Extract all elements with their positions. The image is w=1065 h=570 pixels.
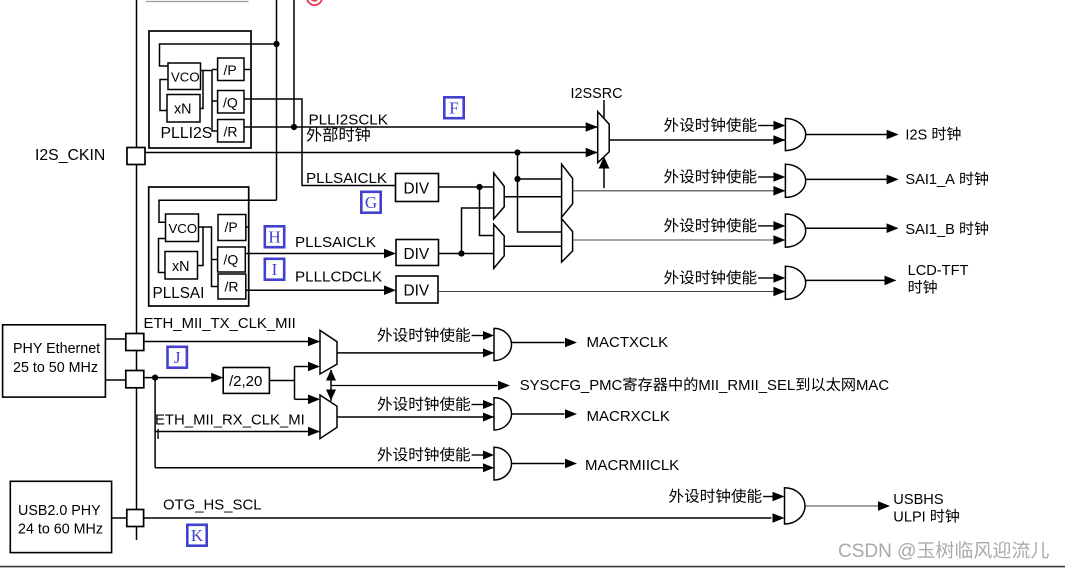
divider /R (PLLI2S) xyxy=(218,120,244,143)
pin USB pad xyxy=(127,510,144,527)
divider /Q (PLLI2S) xyxy=(218,91,244,114)
label 24 to 60 MHz xyxy=(18,522,103,538)
block PLLSAI outer box xyxy=(149,187,249,306)
block PHY Ethernet box xyxy=(3,325,106,397)
badge H xyxy=(265,226,284,247)
wire trunk below ETH pins xyxy=(136,388,138,510)
junction external clock branch xyxy=(514,149,520,155)
marker red circled annotation (cut off at top) xyxy=(307,0,322,5)
wire select link between mux E and F xyxy=(330,370,332,401)
svg-text:25 to 50 MHz: 25 to 50 MHz xyxy=(13,360,98,376)
wire vertical bus segment x=276.5 xyxy=(276,0,278,200)
wire bracket to mux F upper input xyxy=(295,398,309,400)
wire external clock row (from I2S_CKIN pin to I2S mux) xyxy=(145,152,598,154)
wire I2SSRC select from bottom xyxy=(603,168,605,188)
svg-text:J: J xyxy=(174,348,181,367)
arrow signal into SAI1_A gate xyxy=(773,186,785,196)
wire PLLSAI feedback (bus to VCO input) xyxy=(159,200,277,222)
svg-text:xN: xN xyxy=(172,259,189,275)
badge I xyxy=(265,259,284,280)
arrow signal into MACTXCLK gate xyxy=(483,348,494,357)
wire USB box to pin xyxy=(112,517,127,519)
pin I2S_CKIN pad xyxy=(127,148,145,165)
svg-text:PLLI2S: PLLI2S xyxy=(161,125,213,142)
svg-text:USB2.0 PHY: USB2.0 PHY xyxy=(18,503,101,519)
divider /2,20 xyxy=(223,368,269,394)
label I (wrapped) xyxy=(156,427,160,443)
and-gate MACTXCLK enable xyxy=(494,328,512,360)
wire trunk below USB pin xyxy=(136,527,138,541)
wire I2S mux output to AND gate xyxy=(609,139,785,141)
label /2,20 xyxy=(229,373,262,390)
svg-text:PLLSAICLK: PLLSAICLK xyxy=(295,234,376,251)
label DIV (row I) xyxy=(404,283,430,300)
label I2S_CKIN xyxy=(35,147,105,164)
label /Q (PLLI2S) xyxy=(223,95,238,111)
badge J xyxy=(168,347,187,368)
svg-text:PLLLCDCLK: PLLLCDCLK xyxy=(295,269,382,286)
border bottom page rule xyxy=(0,566,1065,568)
svg-text:/P: /P xyxy=(225,219,238,235)
and-gate MACRXCLK enable xyxy=(494,398,512,430)
svg-text:24 to 60 MHz: 24 to 60 MHz xyxy=(18,522,103,538)
label PLLSAICLK (row H) xyxy=(295,234,376,251)
wire VCO-xN left bracket (PLLSAI) xyxy=(159,239,166,273)
svg-text:CSDN @: CSDN @ xyxy=(838,541,916,562)
label+arrow peripheral clock enable (LCD-TFT gate) xyxy=(664,270,785,284)
arrow to I2S clock label xyxy=(887,130,899,140)
svg-text:F: F xyxy=(449,99,458,118)
svg-text:USBHS: USBHS xyxy=(893,492,944,508)
label ETH_MII_TX_CLK_MII xyxy=(144,316,296,332)
label ULPI 时钟 xyxy=(893,509,959,526)
badge K xyxy=(187,525,206,546)
wire mux F output to MACRXCLK gate xyxy=(337,416,494,418)
wire /P output stub (PLLI2S) xyxy=(244,69,251,71)
block PLLI2S outer box xyxy=(149,31,251,148)
label MACTXCLK xyxy=(587,334,669,351)
wire PLLI2S feedback (from bus to VCO input) xyxy=(160,44,277,66)
label MACRXCLK xyxy=(587,408,670,425)
label DIV (row H) xyxy=(404,246,430,263)
arrow to SAI1_A clock label xyxy=(887,175,899,185)
multiplier xN (PLLI2S) xyxy=(167,95,200,123)
wire I2SSRC select from top xyxy=(603,100,605,118)
svg-text:VCO: VCO xyxy=(169,221,198,236)
label SAI1_B 时钟 xyxy=(905,221,988,238)
wire mux A output to mux C xyxy=(504,196,561,198)
wire ETH_MII_RX_CLK to mux F xyxy=(155,431,320,433)
wire xN feedback bracket (PLLI2S) xyxy=(200,71,203,109)
and-gate LCD-TFT clock enable xyxy=(785,266,805,299)
wire DIV(I) output to LCD-TFT gate xyxy=(438,291,785,293)
svg-text:I2S_CKIN: I2S_CKIN xyxy=(35,147,105,164)
svg-text:MAC: MAC xyxy=(856,378,889,394)
wire gate output to SAI1_B clock xyxy=(806,227,887,229)
junction external clock to mux C xyxy=(514,176,520,182)
arrow select up into mux E xyxy=(326,370,336,381)
svg-text:LCD-TFT: LCD-TFT xyxy=(908,263,969,279)
wire VCO output to divider column (PLLI2S) xyxy=(201,71,218,132)
label LCD-TFT xyxy=(908,263,969,279)
arrow to MACTXCLK label xyxy=(565,338,577,348)
badge F xyxy=(444,97,463,118)
arrow select down into mux F xyxy=(326,390,336,401)
label /R (PLLI2S) xyxy=(224,124,238,140)
wire mux D output to SAI1_B gate xyxy=(573,239,786,241)
junction PLLI2SCLK tap xyxy=(291,124,297,130)
wire PLLI2S /Q output to DIV (row G) xyxy=(244,99,396,186)
divider /P (PLLI2S) xyxy=(218,58,244,81)
svg-text:/Q: /Q xyxy=(224,252,239,268)
arrow OTG clock into gate xyxy=(773,513,785,523)
wire RX pin to /2,20 divider xyxy=(144,377,211,379)
label watermark CSDN xyxy=(838,541,1049,562)
divider /P (PLLSAI) xyxy=(218,215,246,241)
arrow to MACRMIICLK label xyxy=(565,459,577,469)
svg-text:MACRMIICLK: MACRMIICLK xyxy=(585,457,679,474)
label I2S 时钟 xyxy=(905,127,960,144)
wire DIV(H) output to mux B xyxy=(439,253,494,255)
arrow TX clock into mux E xyxy=(308,337,320,347)
badge G xyxy=(361,192,380,213)
label DIV (row G) xyxy=(404,181,430,198)
wire VCO output to divider column (PLLSAI) xyxy=(199,227,219,287)
svg-text:xN: xN xyxy=(174,102,191,118)
svg-text:/R: /R xyxy=(225,279,239,295)
svg-text:MACTXCLK: MACTXCLK xyxy=(587,334,669,351)
wire gate output MACRMIICLK xyxy=(512,463,565,465)
svg-text:ETH_MII_RX_CLK_MI: ETH_MII_RX_CLK_MI xyxy=(155,413,305,429)
label ETH_MII_RX_CLK_MI xyxy=(155,413,305,429)
wire column stub to /Q (PLLI2S) xyxy=(212,100,218,102)
wire trunk between ETH pins xyxy=(136,351,138,371)
arrow into /2,20 divider xyxy=(211,373,223,383)
label PLLSAICLK (row G) xyxy=(306,170,387,187)
wire main clock trunk (vertical bus from top) xyxy=(136,0,138,148)
wire column stub to /P (PLLI2S) xyxy=(212,69,218,71)
svg-text:I: I xyxy=(272,260,278,279)
arrow to LCD-TFT clock label xyxy=(885,276,897,286)
wire OTG_HS_SCL to gate xyxy=(144,517,772,519)
divider DIV (row I) xyxy=(396,276,438,303)
svg-text:/P: /P xyxy=(224,62,237,78)
label xN (PLLSAI) xyxy=(172,259,189,275)
junction ETH RX branch xyxy=(152,375,158,381)
arrow into DIV (row I) xyxy=(384,285,396,295)
junction PLLI2S feedback tap xyxy=(273,41,279,47)
svg-text:I2SSRC: I2SSRC xyxy=(571,86,623,102)
label PLLI2S xyxy=(161,125,213,142)
arrow signal into LCD-TFT gate xyxy=(773,287,785,297)
wire vertical bus segment x=294 xyxy=(293,0,295,127)
label VCO (PLLSAI) xyxy=(169,221,198,236)
mux A (SAI1_A source pre-select) xyxy=(494,173,505,219)
svg-text:SAI1_B: SAI1_B xyxy=(905,222,955,238)
svg-text:/R: /R xyxy=(224,124,238,140)
pin ETH TX pad xyxy=(126,334,144,351)
pin ETH RX pad xyxy=(126,371,144,388)
wire xN feedback bracket (PLLSAI) xyxy=(198,227,204,266)
svg-text:PLLSAICLK: PLLSAICLK xyxy=(306,170,387,187)
arrow signal into MACRXCLK gate xyxy=(483,413,494,422)
svg-text:DIV: DIV xyxy=(404,283,430,300)
wire bracket to mux E lower input xyxy=(295,366,309,368)
svg-text:SAI1_A: SAI1_A xyxy=(905,172,955,188)
wire gate output MACTXCLK xyxy=(512,342,565,344)
mux F (MACRXCLK select) xyxy=(320,395,337,439)
divider /Q (PLLSAI) xyxy=(218,247,246,272)
arrow to USBHS label xyxy=(878,501,890,511)
label 外部时钟 (external clock) xyxy=(307,127,370,142)
svg-text:ETH_MII_TX_CLK_MII: ETH_MII_TX_CLK_MII xyxy=(144,316,296,332)
svg-text:I2S: I2S xyxy=(905,127,927,143)
arrow divided clock into mux E xyxy=(308,362,320,372)
label+arrow peripheral clock enable (MACTXCLK gate) xyxy=(378,328,494,342)
svg-text:K: K xyxy=(191,526,204,545)
svg-text:SYSCFG_PMC: SYSCFG_PMC xyxy=(520,378,623,394)
gray line (bottom of cut-off box at top) xyxy=(146,1,249,3)
label+arrow peripheral clock enable (SAI1_B gate) xyxy=(664,218,785,232)
label xN (PLLI2S) xyxy=(174,102,191,118)
wire RMII clock row to gate xyxy=(155,467,494,469)
wire divider bracket vertical xyxy=(294,367,296,400)
wire row H branch up to mux A xyxy=(462,208,494,254)
label /P (PLLI2S) xyxy=(224,62,237,78)
wire /P output stub (PLLSAI) xyxy=(246,226,249,228)
wire ETH_MII_TX_CLK to mux E xyxy=(144,341,320,343)
arrow I2S mux output into gate xyxy=(773,135,785,145)
vco VCO (PLLI2S) xyxy=(168,63,201,90)
wire ETH RX branch vertical xyxy=(154,378,156,468)
svg-text:I: I xyxy=(156,427,160,443)
label+arrow peripheral clock enable (MACRXCLK gate) xyxy=(378,397,494,411)
mux I2SSRC (I2S clock select) xyxy=(598,112,610,163)
wire mux B output to mux D xyxy=(504,245,561,247)
wire /2,20 output bracket xyxy=(269,380,294,382)
label USB2.0 PHY xyxy=(18,503,101,519)
arrow signal into MACRMIICLK gate xyxy=(483,463,494,472)
label 时钟 (LCD-TFT) xyxy=(909,280,937,294)
svg-text:G: G xyxy=(365,193,377,212)
label VCO (PLLI2S) xyxy=(171,70,200,85)
mux D (SAI1_B clock select) xyxy=(562,219,573,262)
wire PLLI2SCLK (PLLI2S /R to I2S mux) xyxy=(244,126,598,128)
arrow PLLI2SCLK into I2S mux xyxy=(586,122,598,132)
wire gate output to SAI1_A clock xyxy=(806,178,887,180)
and-gate MACRMIICLK enable xyxy=(494,447,512,480)
wire DIV(G) output to mux A xyxy=(439,186,494,188)
svg-text:ULPI: ULPI xyxy=(893,510,925,526)
divider DIV (row G) xyxy=(396,174,439,202)
label /R (PLLSAI) xyxy=(225,279,239,295)
svg-text:DIV: DIV xyxy=(404,246,430,263)
and-gate I2S clock enable xyxy=(785,119,805,151)
wire gate output to LCD-TFT clock xyxy=(806,279,885,281)
svg-text:PLLI2SCLK: PLLI2SCLK xyxy=(309,112,388,129)
mux B (SAI1_B source pre-select) xyxy=(494,224,505,268)
divider /R (PLLSAI) xyxy=(218,274,246,299)
wire external clock branch down xyxy=(518,153,562,233)
label PLLSAI xyxy=(153,285,205,302)
label /Q (PLLSAI) xyxy=(224,252,239,268)
wire VCO-xN left bracket (PLLI2S) xyxy=(160,80,168,111)
arrow signal into SAI1_B gate xyxy=(773,235,785,245)
and-gate USBHS ULPI clock enable xyxy=(785,488,806,524)
block USB2.0 PHY box xyxy=(10,481,111,552)
wire PLLSAI /Q to DIV (row H) xyxy=(245,253,387,255)
svg-text:OTG_HS_SCL: OTG_HS_SCL xyxy=(163,498,261,514)
arrow external clock into I2S mux xyxy=(586,148,598,158)
label SYSCFG_PMC MII_RMII_SEL xyxy=(520,377,890,394)
svg-text:PHY Ethernet: PHY Ethernet xyxy=(13,341,100,357)
label PHY Ethernet xyxy=(13,341,100,357)
svg-text:/2,20: /2,20 xyxy=(229,373,262,390)
wire gate output USBHS xyxy=(806,505,879,507)
label MACRMIICLK xyxy=(585,457,679,474)
wire column stub to /Q (PLLSAI) xyxy=(212,259,218,261)
label USBHS xyxy=(893,492,944,508)
arrow to MACRXCLK label xyxy=(565,409,577,419)
svg-text:VCO: VCO xyxy=(171,70,200,85)
arrow into DIV (row H) xyxy=(384,249,396,259)
arrow divided clock into mux F xyxy=(308,395,320,405)
label+arrow peripheral clock enable (SAI1_A gate) xyxy=(664,169,785,183)
wire trunk below I2S_CKIN pin xyxy=(136,165,138,334)
wire PLLSAI /R to DIV (row I) xyxy=(246,289,387,291)
mux E (MACTXCLK select) xyxy=(320,330,337,374)
label SAI1_A 时钟 xyxy=(905,172,988,189)
svg-text:/Q: /Q xyxy=(223,95,238,111)
label I2SSRC xyxy=(571,86,623,102)
wire gate output MACRXCLK xyxy=(512,413,565,415)
label PLLI2SCLK xyxy=(309,112,388,129)
mux C (SAI1_A clock select) xyxy=(562,164,573,217)
label 25 to 50 MHz xyxy=(13,360,98,376)
label OTG_HS_SCL xyxy=(163,498,261,514)
label+arrow peripheral clock enable (USBHS gate) xyxy=(669,489,784,503)
arrow to SAI1_B clock label xyxy=(887,223,899,233)
label /P (PLLSAI) xyxy=(225,219,238,235)
wire mux E output to MACTXCLK gate xyxy=(337,352,494,354)
arrow to SYSCFG label xyxy=(498,381,510,391)
and-gate SAI1_A clock enable xyxy=(785,164,805,197)
wire mux C output to SAI1_A gate xyxy=(573,190,786,192)
junction row H branch xyxy=(458,250,464,256)
wire gate output to I2S clock xyxy=(806,134,887,136)
label PLLLCDCLK (row I) xyxy=(295,269,382,286)
vco VCO (PLLSAI) xyxy=(166,214,199,242)
divider DIV (row H) xyxy=(396,240,439,266)
wire row G branch down to mux B xyxy=(480,187,494,236)
wire external clock to mux C xyxy=(518,178,562,180)
junction row G branch xyxy=(476,184,482,190)
multiplier xN (PLLSAI) xyxy=(165,252,198,280)
svg-text:MII_RMII_SEL: MII_RMII_SEL xyxy=(698,378,795,394)
wire PHY box to TX pin xyxy=(105,338,125,340)
wire PHY box to RX pin xyxy=(105,379,125,381)
and-gate SAI1_B clock enable xyxy=(785,214,805,247)
svg-text:MACRXCLK: MACRXCLK xyxy=(587,408,670,425)
arrow select up into I2S mux xyxy=(599,157,610,169)
label+arrow peripheral clock enable (I2S gate) xyxy=(664,118,785,132)
svg-text:DIV: DIV xyxy=(404,181,430,198)
wire MII_RMII_SEL select line xyxy=(331,385,498,387)
svg-text:PLLSAI: PLLSAI xyxy=(153,285,205,302)
arrow RX clock into mux F xyxy=(308,427,320,437)
label+arrow peripheral clock enable (MACRMIICLK gate) xyxy=(378,447,494,461)
svg-text:H: H xyxy=(268,228,280,247)
